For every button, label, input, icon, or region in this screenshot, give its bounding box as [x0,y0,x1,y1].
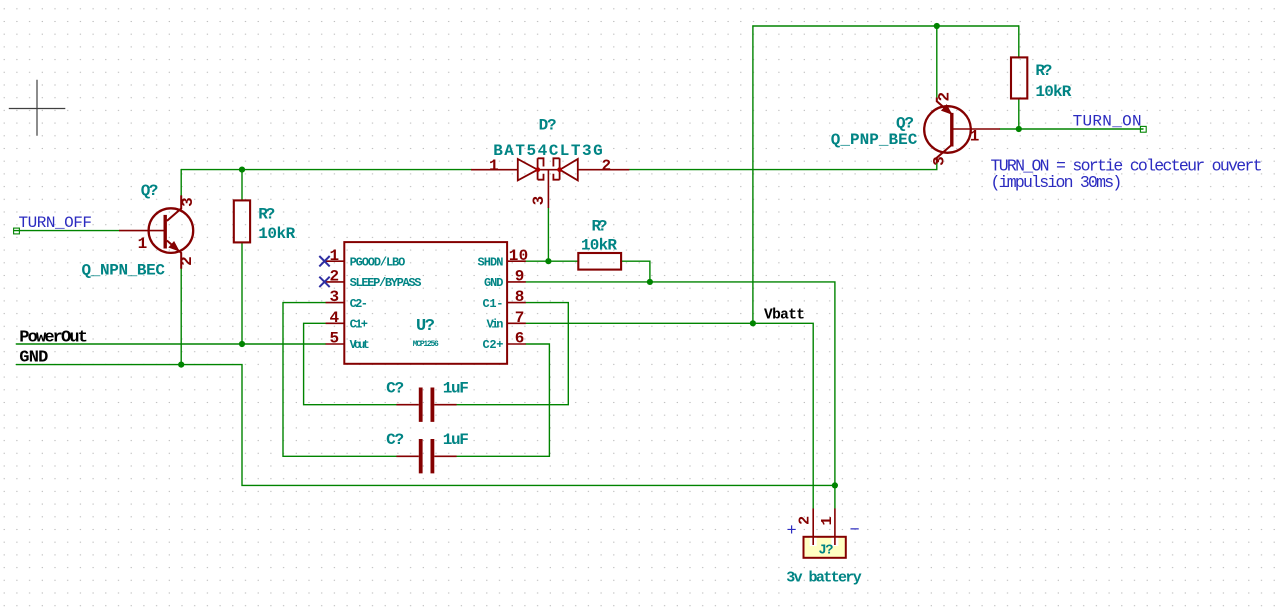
D1 cathode lead pin2 [578,169,630,171]
svg-text:C?: C? [386,431,404,449]
open wire end square TURN_ON [1140,126,1146,132]
U1 pin 4 stub [326,322,345,324]
wire R1 top [241,170,243,201]
resistor R1 [234,200,250,242]
no-connect X pin2 [319,277,329,287]
svg-text:R?: R? [1035,62,1052,80]
junction top-right / Q2 emitter [934,23,940,29]
svg-text:2: 2 [178,256,196,266]
U1 pin 6 stub [507,343,526,345]
D1 left triangle [518,159,538,180]
wire PowerOut to U1 pin5 [16,343,325,345]
svg-text:7: 7 [515,309,525,327]
svg-text:C2-: C2- [350,297,368,311]
svg-text:SHDN: SHDN [478,255,504,269]
svg-text:MCP1256: MCP1256 [413,340,439,349]
junction TURN_ON / R2 [1016,126,1022,132]
svg-text:2: 2 [936,92,954,102]
J1 pin 2 lead [812,509,814,546]
diode D1 BAT54CLT3G [471,158,629,208]
D1 anode lead pin1 [471,169,518,171]
wire R3 right to GND net [621,261,650,282]
svg-text:R?: R? [258,206,275,224]
no-connect X pin1 [319,256,329,266]
svg-text:C1-: C1- [483,297,504,311]
U1 pin 7 stub [507,322,526,324]
D1 middle link [538,169,560,171]
capacitor C2 [396,439,456,473]
wire Vbatt vertical [752,26,754,323]
svg-text:Q_NPN_BEC: Q_NPN_BEC [82,262,166,280]
wire C1 right to U1 pin8 [457,303,569,405]
junction Vbatt / Vin [750,320,756,326]
svg-text:3: 3 [179,197,197,207]
U1 pin 3 stub [326,302,345,304]
D1 internal dots [535,167,540,172]
svg-text:PGOOD/LBO: PGOOD/LBO [350,255,406,269]
junction SHDN / D1 pin3 [545,258,551,264]
wire Q1 collector up [180,170,182,196]
svg-text:2: 2 [330,268,340,286]
wire U1 pin7 Vin to battery pin2 [526,323,813,508]
svg-text:4: 4 [330,309,340,327]
svg-text:10kR: 10kR [258,225,295,243]
IC U1 body [326,242,526,364]
svg-text:(impulsion 30ms): (impulsion 30ms) [991,173,1123,192]
svg-text:R?: R? [592,218,608,236]
junction GND / battery [832,482,838,488]
svg-text:Q?: Q? [141,182,159,200]
U1 pin 5 stub [326,343,345,345]
wire top-left horizontal to D1 pin1 [181,169,471,171]
wire U1 pin9 GND to battery pin1 [526,282,835,509]
wire Q1 emitter down to GND [180,269,182,365]
wire R2 top [1018,26,1020,58]
wire U1 pin3 to C2 left [283,303,396,457]
svg-text:10kR: 10kR [1035,83,1071,101]
wire TURN_OFF to Q1 base [15,230,120,232]
svg-text:J?: J? [819,544,834,559]
U1 pin 10 stub [507,260,526,262]
svg-text:SLEEP/BYPASS: SLEEP/BYPASS [350,276,422,290]
U1 pin 2 stub [326,281,345,283]
svg-text:10kR: 10kR [581,237,617,255]
svg-text:2: 2 [797,516,814,525]
D1 stem pin3 [547,170,549,208]
svg-text:3: 3 [530,196,548,206]
svg-text:1: 1 [819,516,836,525]
svg-text:5: 5 [330,330,340,348]
svg-text:9: 9 [515,268,525,286]
svg-text:Q?: Q? [896,115,914,133]
transistor Q2 PNP [924,98,1000,164]
svg-text:1uF: 1uF [443,431,469,449]
svg-text:1: 1 [970,128,980,146]
wire R2 bottom [1018,98,1020,129]
wire U1 pin4 to C1 left [304,323,397,404]
open wire end square TURN_OFF [14,228,20,234]
wire GND run to battery [16,365,835,486]
svg-text:3: 3 [330,288,340,306]
capacitor C1 [396,388,456,422]
U1 pin 8 stub [507,302,526,304]
svg-text:3v battery: 3v battery [786,570,862,587]
svg-text:Vout: Vout [350,339,370,352]
resistor R2 [1011,57,1027,98]
svg-text:C2+: C2+ [483,338,504,352]
wire D1 pin2 to Q2 collector [629,164,937,170]
connector J1 battery [804,509,846,558]
svg-text:U?: U? [416,317,435,336]
wire C2 right to U1 pin6 [457,344,550,456]
D1 right triangle [560,159,578,180]
svg-text:−: − [850,522,860,541]
D1 left cathode [538,158,544,179]
svg-text:3: 3 [931,156,949,166]
svg-text:D?: D? [539,117,557,135]
svg-text:Vin: Vin [487,318,504,332]
junction PowerOut / R1 [239,341,245,347]
resistor R3 [578,253,621,270]
junction GND / Q1 emitter [178,362,184,368]
wire top-right horizontal [753,25,1019,27]
wire Q2 emitter up [936,26,938,98]
svg-text:2: 2 [602,157,612,175]
svg-text:1: 1 [138,235,148,253]
svg-text:Q_PNP_BEC: Q_PNP_BEC [831,131,918,149]
wire D1 pin3 down to SHDN [547,208,549,261]
svg-text:C1+: C1+ [350,318,368,332]
U1 pin 1 stub [326,260,345,262]
D1 right cathode [553,158,559,179]
svg-text:GND: GND [484,276,504,290]
svg-text:1uF: 1uF [443,380,469,398]
junction R1 top wire [239,167,245,173]
wire R1 bottom to PowerOut [241,242,243,344]
svg-text:BAT54CLT3G: BAT54CLT3G [493,142,603,160]
svg-text:GND: GND [19,349,48,368]
svg-text:8: 8 [515,288,525,306]
svg-text:10: 10 [509,247,529,265]
J1 pin 1 lead [834,509,836,546]
U1 pin 9 stub [507,281,526,283]
sheet origin crosshair [9,80,66,136]
svg-text:TURN_OFF: TURN_OFF [19,214,93,232]
transistor Q1 NPN [119,195,193,268]
svg-text:6: 6 [515,330,525,348]
junction GND / R3 [647,279,653,285]
svg-text:Vbatt: Vbatt [764,308,805,324]
svg-text:+: + [787,522,797,541]
svg-text:TURN_ON: TURN_ON [1073,112,1142,130]
svg-text:C?: C? [386,380,404,398]
svg-text:PowerOut: PowerOut [19,328,88,347]
wire U1 pin10 SHDN to R3 [526,260,578,262]
wire TURN_ON [1000,128,1143,130]
svg-text:1: 1 [330,247,340,265]
